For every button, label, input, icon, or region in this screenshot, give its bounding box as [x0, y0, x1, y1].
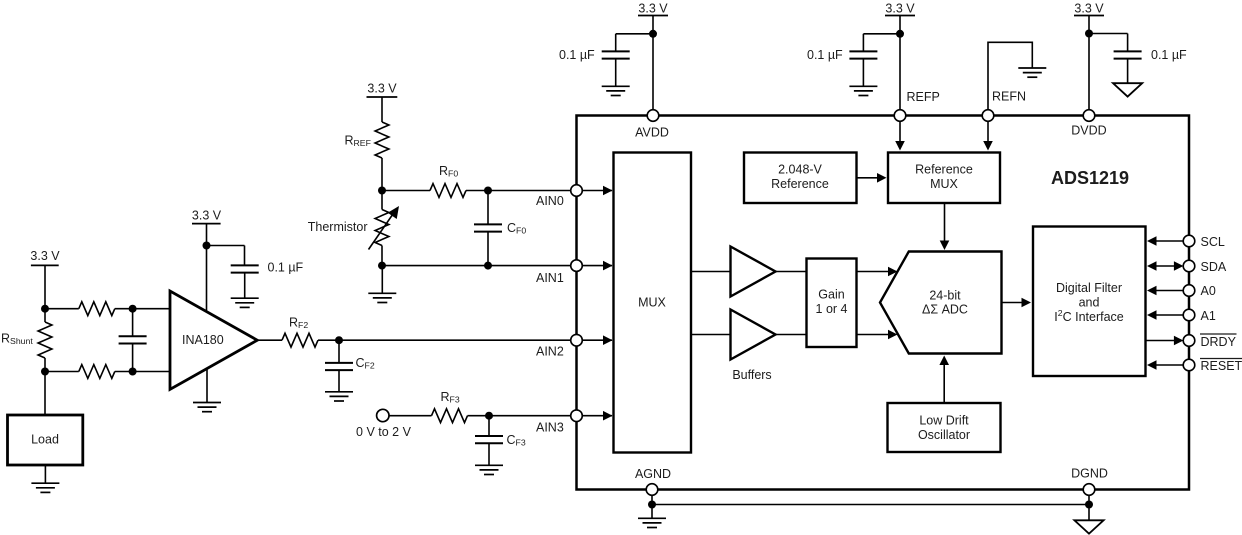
wire: [651, 495, 653, 504]
ground: [31, 483, 59, 492]
digital filter box: [1033, 227, 1146, 377]
capacitor input filter: [119, 336, 147, 343]
source terminal 0V-2V: [377, 409, 389, 421]
capacitor CF0: [487, 191, 489, 225]
wire: [582, 265, 612, 267]
svg-text:Load: Load: [31, 433, 59, 447]
svg-text:AVDD: AVDD: [635, 126, 669, 140]
svg-text:Reference: Reference: [771, 177, 829, 191]
svg-text:REFP: REFP: [907, 90, 940, 104]
wire: [206, 369, 208, 402]
svg-text:3.3 V: 3.3 V: [1074, 2, 1104, 16]
svg-text:A0: A0: [1201, 284, 1216, 298]
reference mux box: [888, 153, 1000, 204]
svg-text:AIN2: AIN2: [536, 345, 564, 359]
wire: [691, 334, 731, 336]
node junction: [1085, 501, 1093, 509]
pin SDA: [1150, 265, 1180, 267]
resistor RF0: [430, 184, 466, 198]
chip main box ADS1219: [577, 116, 1190, 490]
svg-text:MUX: MUX: [930, 177, 958, 191]
svg-text:0 V to 2 V: 0 V to 2 V: [356, 425, 412, 439]
wire: [857, 271, 891, 273]
wire: [381, 97, 383, 122]
wire refmux to adc: [944, 203, 946, 243]
wire: [115, 371, 170, 373]
svg-text:Thermistor: Thermistor: [308, 220, 368, 234]
wire REFN down: [987, 121, 989, 144]
svg-text:Reference: Reference: [915, 163, 973, 177]
adc 24-bit delta-sigma: [880, 252, 1002, 354]
resistor RF3: [432, 409, 468, 423]
svg-text:Oscillator: Oscillator: [918, 428, 970, 442]
svg-text:DRDY: DRDY: [1201, 335, 1237, 349]
wire: [863, 33, 900, 35]
resistor input bottom: [79, 365, 115, 379]
svg-text:2.048-V: 2.048-V: [778, 163, 822, 177]
supply bar: [192, 223, 221, 225]
ground: [475, 465, 503, 474]
capacitor 0.1uF AVDD: [602, 51, 630, 58]
pin AGND: [646, 484, 658, 496]
resistor RShunt: [38, 322, 52, 358]
svg-text:0.1 µF: 0.1 µF: [807, 48, 843, 62]
capacitor 0.1uF DVDD: [1114, 51, 1142, 58]
wire: [582, 339, 612, 341]
resistor input top: [79, 302, 115, 316]
wire: [115, 308, 170, 310]
svg-text:24-bit: 24-bit: [929, 289, 961, 303]
pin DGND: [1083, 484, 1095, 496]
wire: [1088, 16, 1090, 111]
wire: [381, 158, 383, 191]
wire: [615, 59, 617, 87]
node junction: [129, 305, 137, 313]
ground triangle: [1113, 83, 1142, 96]
svg-text:AIN3: AIN3: [536, 421, 564, 435]
pin RESET: [1150, 364, 1183, 366]
node junction: [484, 187, 492, 195]
supply bar: [1074, 15, 1104, 17]
wire: [1088, 505, 1090, 521]
svg-text:Buffers: Buffers: [732, 368, 771, 382]
wire: [862, 59, 864, 87]
svg-text:0.1 µF: 0.1 µF: [1151, 48, 1187, 62]
wire: [382, 190, 430, 192]
wire: [651, 505, 653, 519]
wire: [1088, 495, 1090, 504]
svg-text:INA180: INA180: [182, 333, 224, 347]
buffer amp 2: [731, 310, 776, 360]
wire REFP down: [899, 121, 901, 144]
wire: [382, 265, 571, 267]
resistor RREF: [375, 122, 389, 158]
wire: [582, 415, 612, 417]
capacitor CF3: [488, 416, 490, 436]
ground: [368, 293, 396, 302]
wire: [318, 339, 571, 341]
wire oscillator to adc: [943, 362, 945, 403]
node junction: [1085, 30, 1093, 38]
svg-text:AGND: AGND: [635, 467, 671, 481]
wire: [616, 33, 653, 35]
op-amp INA180: [170, 291, 257, 389]
node junction: [378, 187, 386, 195]
svg-text:SCL: SCL: [1201, 235, 1225, 249]
wire: [988, 42, 1032, 110]
wire: [44, 465, 46, 483]
node junction: [485, 412, 493, 420]
oscillator box: [888, 403, 1001, 452]
gain box: [807, 259, 857, 348]
svg-text:DVDD: DVDD: [1071, 124, 1106, 138]
svg-text:Low Drift: Low Drift: [919, 414, 969, 428]
wire: [338, 370, 340, 392]
wire: [468, 415, 572, 417]
ground: [849, 86, 877, 95]
supply bar: [638, 15, 668, 17]
wire: [466, 190, 571, 192]
wire: [776, 334, 807, 336]
node junction: [896, 30, 904, 38]
svg-text:Gain: Gain: [818, 288, 844, 302]
svg-text:AIN0: AIN0: [536, 194, 564, 208]
wire: [44, 265, 46, 308]
pin DRDY: [1146, 340, 1177, 342]
wire: [44, 372, 46, 416]
wire: [244, 273, 246, 299]
svg-text:REFN: REFN: [992, 90, 1026, 104]
supply bar: [367, 96, 398, 98]
wire agnd to dgnd: [652, 504, 1089, 506]
wire: [389, 415, 432, 417]
node junction: [41, 368, 49, 376]
MUX box: [614, 153, 692, 453]
pin SCL: [1150, 240, 1183, 242]
wire: [45, 308, 79, 310]
ground: [231, 298, 259, 307]
ground triangle: [1074, 520, 1103, 533]
pin AIN1: [571, 260, 583, 272]
node junction: [203, 242, 211, 250]
svg-text:1 or 4: 1 or 4: [816, 302, 848, 316]
node junction: [649, 30, 657, 38]
svg-text:DGND: DGND: [1071, 467, 1108, 481]
resistor RF2: [282, 333, 318, 347]
svg-text:I2C Interface: I2C Interface: [1054, 308, 1124, 324]
pin A1: [1150, 314, 1183, 316]
svg-text:3.3 V: 3.3 V: [192, 209, 222, 223]
supply bar: [885, 15, 915, 17]
wire: [1127, 59, 1129, 84]
wire adc to filter: [1002, 302, 1025, 304]
pin AVDD: [647, 110, 659, 122]
svg-text:3.3 V: 3.3 V: [638, 2, 668, 16]
ground: [638, 518, 666, 527]
pin A0: [1150, 290, 1183, 292]
wire: [857, 334, 891, 336]
wire: [776, 271, 807, 273]
svg-text:Digital Filter: Digital Filter: [1056, 281, 1122, 295]
svg-text:SDA: SDA: [1201, 260, 1227, 274]
buffer amp 1: [731, 247, 776, 297]
svg-text:ADS1219: ADS1219: [1051, 168, 1129, 188]
node junction: [335, 336, 343, 344]
node junction: [484, 262, 492, 270]
node junction: [378, 262, 386, 270]
svg-text:AIN1: AIN1: [536, 271, 564, 285]
pin REFN: [982, 110, 994, 122]
ground: [1018, 68, 1046, 77]
node junction: [648, 501, 656, 509]
ground: [602, 86, 630, 95]
ground: [325, 392, 353, 401]
wire: [1089, 33, 1128, 35]
capacitor 0.1uF REFP: [849, 51, 877, 58]
wire: [582, 190, 612, 192]
thermistor: [375, 210, 389, 246]
svg-text:A1: A1: [1201, 309, 1216, 323]
ground: [193, 403, 221, 412]
load box: [8, 415, 83, 465]
svg-text:3.3 V: 3.3 V: [367, 82, 397, 96]
svg-text:0.1 µF: 0.1 µF: [268, 261, 304, 275]
wire: [207, 245, 245, 247]
wire: [206, 224, 208, 312]
node junction: [129, 368, 137, 376]
wire: [381, 266, 383, 294]
wire: [45, 371, 79, 373]
pin DVDD: [1083, 110, 1095, 122]
capacitor 0.1uF INA: [231, 265, 259, 272]
svg-text:and: and: [1079, 296, 1100, 310]
pin REFP: [894, 110, 906, 122]
pin AIN3: [571, 410, 583, 422]
wire: [257, 339, 282, 341]
wire: [691, 271, 731, 273]
svg-text:RESET: RESET: [1201, 359, 1242, 373]
wire: [857, 177, 880, 179]
wire: [44, 358, 46, 372]
node junction: [41, 305, 49, 313]
wire: [899, 16, 901, 111]
svg-text:MUX: MUX: [638, 296, 666, 310]
supply rail bar: [31, 264, 59, 266]
capacitor CF2: [338, 340, 340, 363]
wire: [44, 309, 46, 322]
svg-text:3.3 V: 3.3 V: [885, 2, 915, 16]
wire: [652, 16, 654, 111]
svg-text:3.3 V: 3.3 V: [30, 249, 60, 263]
svg-text:0.1 µF: 0.1 µF: [559, 48, 595, 62]
svg-text:ΔΣ ADC: ΔΣ ADC: [922, 303, 968, 317]
pin AIN2: [571, 334, 583, 346]
reference box 2.048V: [744, 153, 857, 204]
pin AIN0: [571, 185, 583, 197]
